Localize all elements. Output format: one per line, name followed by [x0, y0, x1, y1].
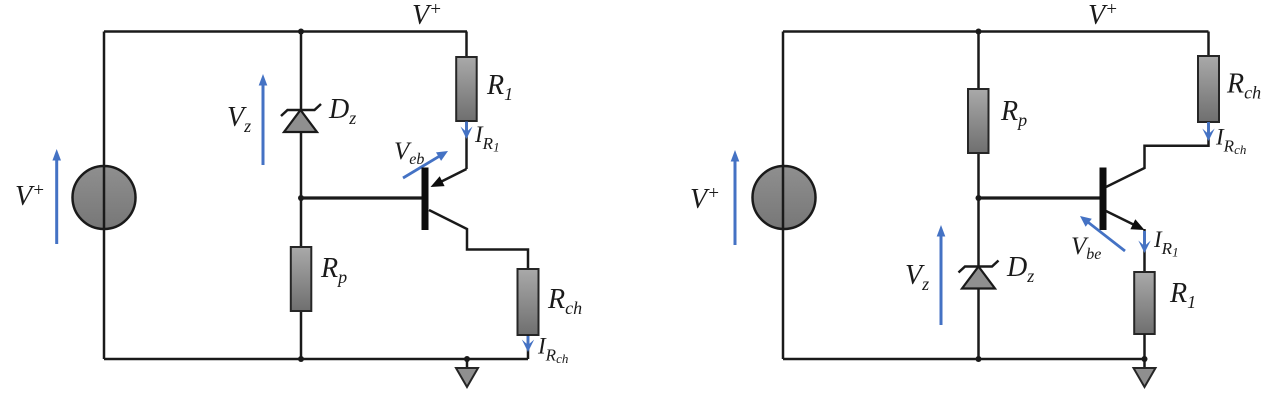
svg-text:IR1: IR1 [474, 122, 500, 155]
node: ground junction, left circuit [464, 356, 470, 362]
arrow V+ (blue) left circuit [52, 149, 61, 244]
resistor Rp right circuit [968, 89, 989, 153]
svg-text:Rch: Rch [1226, 69, 1261, 103]
resistor R1 right circuit [1134, 272, 1155, 334]
wire: R1 to ground junction, right circuit [1143, 334, 1146, 359]
wire: top rail down to Rch, right circuit [1207, 32, 1210, 57]
svg-text:Vbe: Vbe [1071, 233, 1101, 263]
wire: Q2 collector path to Rch, right circuit [1106, 122, 1209, 187]
node: ground junction, right circuit [1142, 356, 1148, 362]
transistor Q1 (PNP) base bar, left circuit [422, 168, 429, 231]
svg-text:Rch: Rch [547, 284, 582, 318]
svg-text:V+: V+ [412, 0, 442, 31]
svg-text:Rp: Rp [320, 253, 347, 287]
wire: emitter to R1, right circuit [1143, 229, 1146, 272]
wire: Q1 emitter diagonal with arrow, left circuit [431, 169, 467, 187]
resistor R1 left circuit [456, 57, 477, 121]
voltage source V+ (circle) left circuit [73, 166, 136, 229]
resistor Rch left circuit [518, 269, 539, 335]
svg-text:Vz: Vz [905, 260, 929, 294]
resistor Rp left circuit [291, 247, 312, 311]
arrow IR1 (blue) right circuit [1138, 231, 1150, 253]
arrow IRch (blue) right circuit [1202, 122, 1214, 141]
svg-text:Rp: Rp [1000, 96, 1027, 130]
arrow Veb (blue) left circuit [403, 151, 448, 178]
node: junction top of zener branch, left circuit [298, 29, 304, 35]
wire: right circuit middle rail (Rp/zener branch) [977, 32, 980, 360]
wire: Rch to bottom rail, left circuit [527, 335, 530, 359]
arrow V+ (blue) right circuit [731, 150, 740, 245]
wire: base wire to Q2, right circuit [979, 196, 1100, 199]
node: junction base/Rp/zener, right circuit [976, 195, 982, 201]
voltage source V+ (circle) right circuit [753, 166, 816, 229]
node: junction base/zener/Rp, left circuit [298, 195, 304, 201]
wire: base wire to Q1, left circuit [301, 196, 422, 199]
wire: left circuit bottom rail [104, 358, 528, 361]
wire: left circuit top rail [104, 30, 467, 33]
wire: right circuit left rail [782, 32, 785, 360]
svg-text:Dz: Dz [1006, 252, 1034, 286]
wire: Q1 collector path to Rch, left circuit [429, 210, 528, 269]
svg-text:V+: V+ [1088, 0, 1118, 31]
resistor Rch right circuit [1198, 56, 1219, 122]
node: junction top of Rp branch, right circuit [976, 29, 982, 35]
wire: Q2 emitter diagonal with arrow, right circuit [1106, 211, 1145, 230]
svg-text:Veb: Veb [394, 138, 424, 168]
transistor Q2 (NPN) base bar, right circuit [1100, 168, 1107, 231]
svg-text:Dz: Dz [328, 94, 356, 128]
arrow Vbe (blue) right circuit [1080, 216, 1125, 251]
wire: top rail down to R1, left circuit [465, 32, 468, 58]
svg-text:IR1: IR1 [1153, 227, 1179, 260]
arrow Vz (blue) right circuit [937, 225, 946, 325]
wire: right circuit top rail [783, 30, 1209, 33]
svg-text:IRch: IRch [1215, 125, 1246, 158]
wire: left circuit left rail [103, 32, 106, 360]
zener diode Dz right circuit [959, 261, 999, 289]
wire: right circuit bottom rail [783, 358, 1145, 361]
svg-text:R1: R1 [486, 70, 513, 104]
ground symbol right circuit [1134, 359, 1156, 387]
svg-text:IRch: IRch [537, 334, 568, 367]
arrow IRch (blue) left circuit [522, 336, 534, 352]
arrow Vz (blue) left circuit [259, 74, 268, 165]
wire: left circuit middle rail (zener/Rp branch) [300, 32, 303, 360]
wire: R1 to emitter, left circuit [465, 121, 468, 169]
node: junction bottom rail of middle branch, right circuit [976, 356, 982, 362]
arrow IR1 (blue) left circuit [461, 122, 473, 140]
zener diode Dz left circuit [281, 104, 321, 132]
svg-text:V+: V+ [15, 180, 45, 212]
svg-text:Vz: Vz [227, 102, 251, 136]
svg-text:V+: V+ [690, 183, 720, 215]
svg-text:R1: R1 [1169, 278, 1196, 312]
node: junction bottom of Rp branch, left circuit [298, 356, 304, 362]
ground symbol left circuit [456, 359, 478, 387]
